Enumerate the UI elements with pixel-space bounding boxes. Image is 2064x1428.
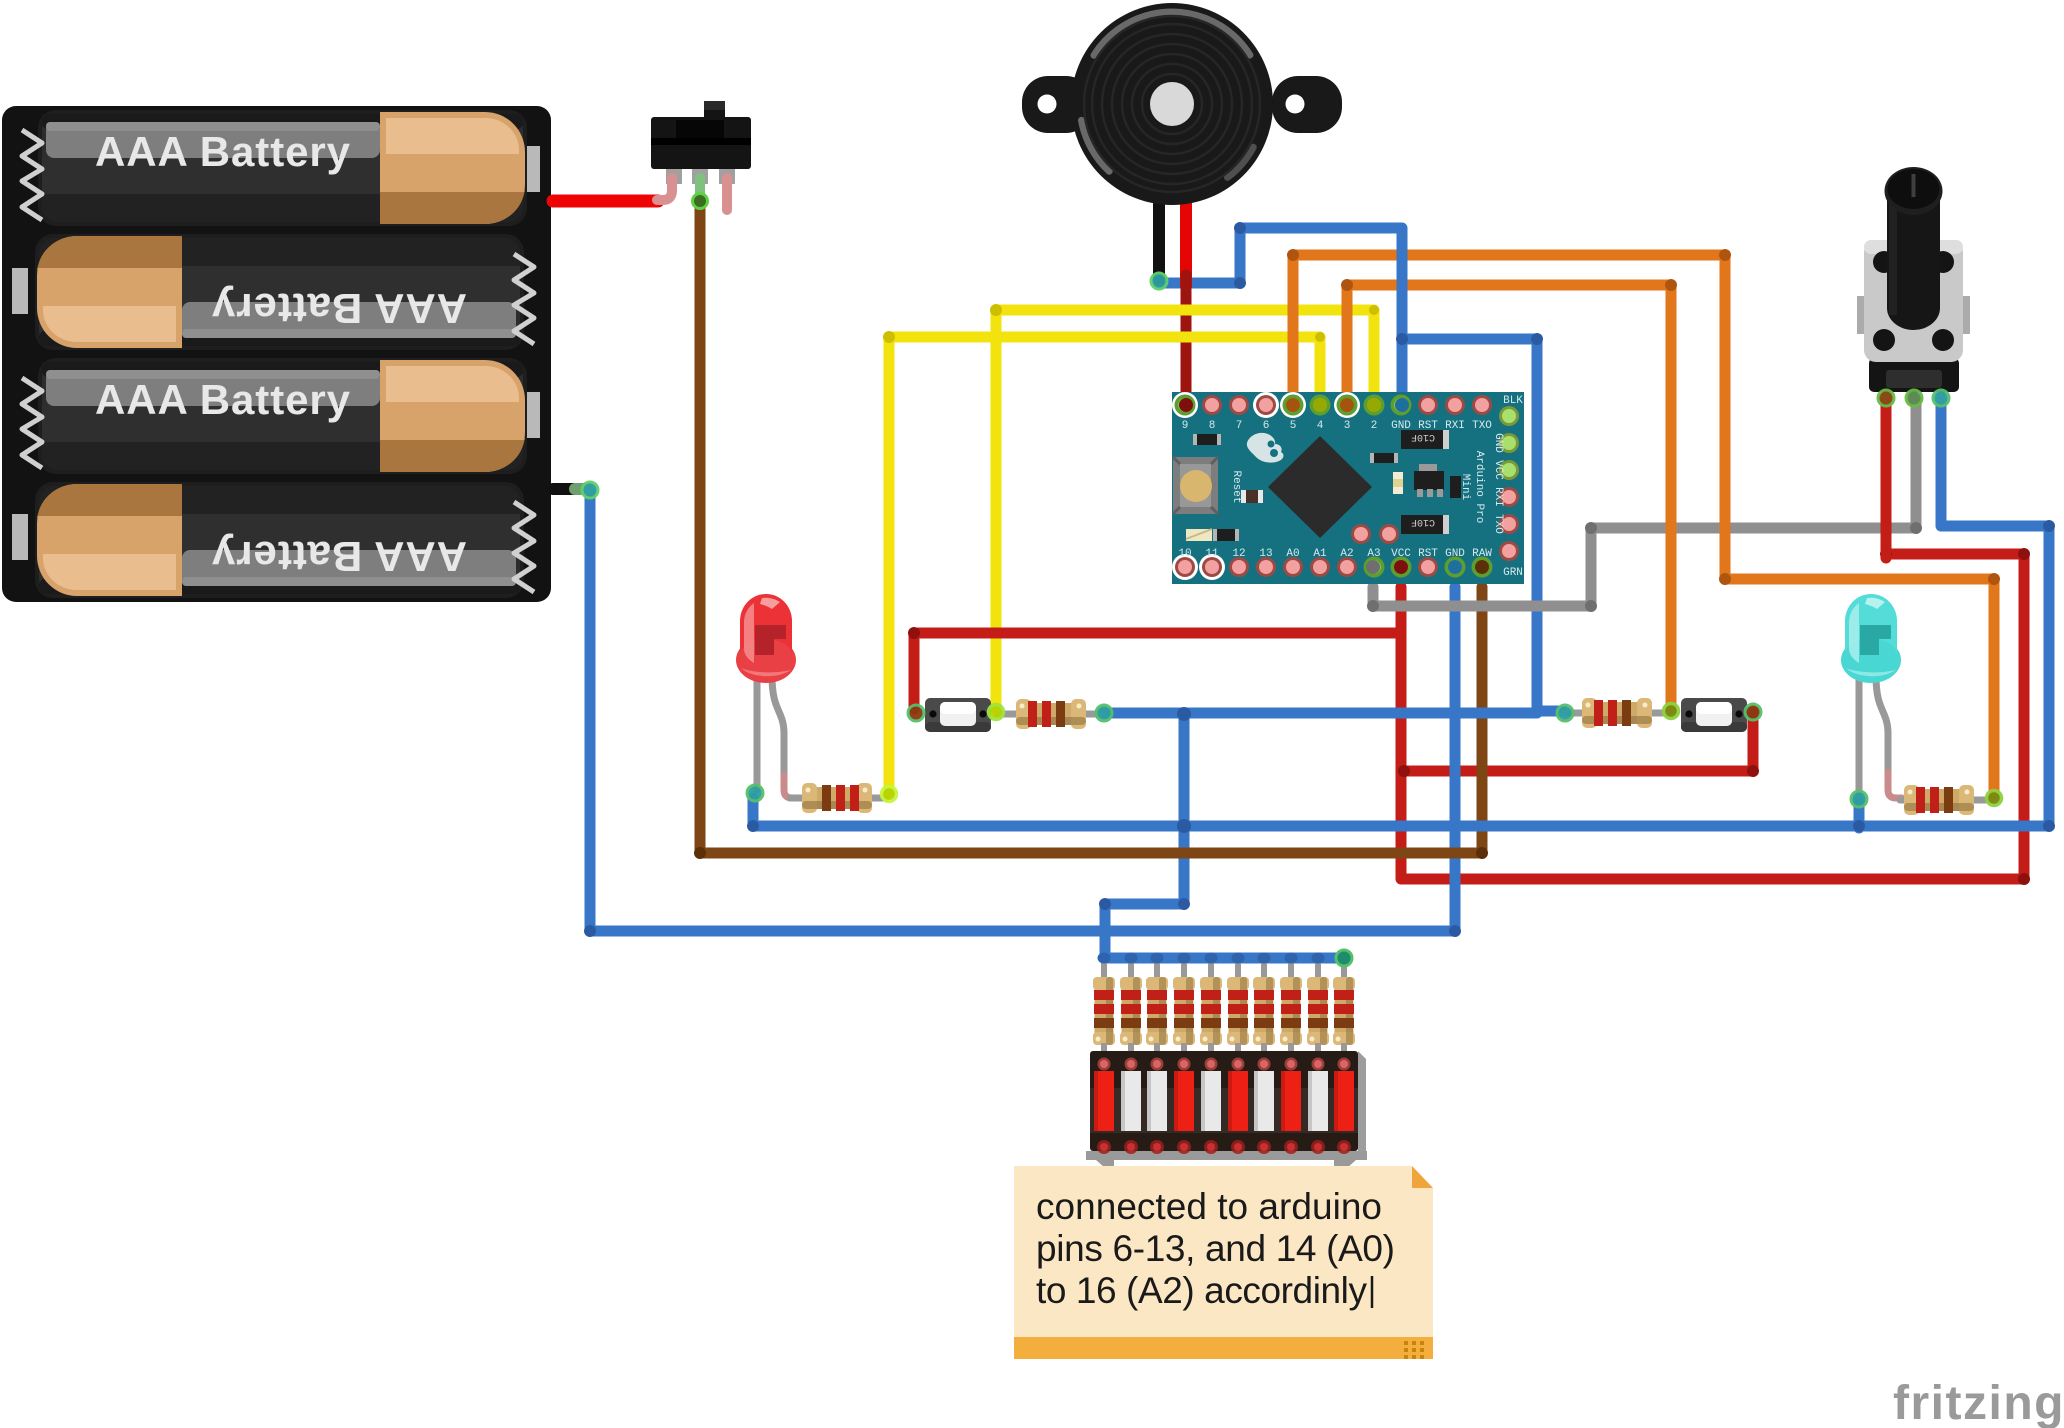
Arduino Pro Mini U1 (1172, 392, 1524, 584)
potentiometer RV1 (1857, 167, 1970, 404)
battery AAA cell 3 (38, 358, 527, 474)
junction dots on blue bus (1098, 950, 1353, 966)
svg-text:11: 11 (1205, 548, 1219, 560)
junction: S3 right pin (red wire) (1745, 704, 1761, 720)
junction: R4 right to orange wire (1987, 791, 2002, 806)
svg-text:GND: GND (1445, 548, 1465, 560)
resistor R10 (bar graph segment 6) (1227, 977, 1249, 1045)
svg-text:VCC: VCC (1492, 460, 1504, 480)
resistor R1 (LED D1 series) (802, 783, 872, 813)
U1 top pin row (1172, 392, 1492, 418)
U1 C10F capacitor (top) (1401, 430, 1449, 449)
svg-text:TXO: TXO (1472, 420, 1492, 432)
buzzer mounting ears (1022, 76, 1092, 133)
svg-text:2: 2 (1371, 420, 1378, 432)
svg-text:Reset: Reset (1230, 470, 1242, 503)
svg-text:13: 13 (1259, 548, 1272, 560)
resistor R3 lead wires (1564, 710, 1586, 717)
svg-text:AAA Battery: AAA Battery (211, 533, 467, 580)
U1 extra pads (1351, 524, 1371, 544)
resistor R12 (bar graph segment 8) (1280, 977, 1302, 1045)
LED D1 (red) (736, 594, 796, 798)
wire: red VCC main (VCC pin to potentiometer left pin) (1401, 554, 2024, 879)
resistor R4 lead wires (1900, 797, 1922, 804)
junction: LED D1 cathode (747, 785, 763, 801)
U1 reset button (1173, 457, 1218, 514)
resistor R2 (button S2 pulldown) (1016, 699, 1086, 729)
battery AAA cell 2 (35, 234, 524, 350)
buzzer black lead (1153, 170, 1165, 279)
battery AAA cell 1 (38, 110, 527, 226)
resistor R13 (bar graph segment 9) (1307, 977, 1329, 1045)
wire: brown switch middle pin to Arduino RAW pin (700, 203, 1482, 853)
LED D2 (cyan) (1841, 594, 1902, 798)
switch pin 3 stub (722, 178, 732, 210)
svg-text:AAA Battery: AAA Battery (95, 128, 351, 175)
resistor R9 (bar graph segment 5) (1200, 977, 1222, 1045)
svg-text:GND: GND (1492, 433, 1504, 453)
U1 right pin column (1499, 406, 1519, 561)
wire: blue buzzer-GND net (buzzer black lead to GND top pin) (1159, 228, 1402, 401)
piezo buzzer LS1 (1022, 0, 1342, 286)
slide switch S1 (651, 101, 751, 184)
switch pin 2 stub (to brown wire) (695, 178, 705, 196)
wire: red stub to potentiometer left pin (1881, 401, 1892, 558)
U1 ATmega chip (diamond) (1268, 436, 1372, 538)
svg-text:5: 5 (1290, 420, 1297, 432)
svg-text:12: 12 (1232, 548, 1245, 560)
wire: black battery negative stub (553, 483, 583, 495)
svg-text:9: 9 (1182, 420, 1189, 432)
junction rings: potentiometer pins (1878, 390, 1894, 406)
svg-text:BLK: BLK (1503, 395, 1523, 407)
svg-text:connected to arduino: connected to arduino (1036, 1186, 1382, 1227)
buzzer red lead (1180, 170, 1192, 286)
resistor R14 (bar graph segment 10) (1333, 977, 1355, 1045)
svg-text:RAW: RAW (1472, 548, 1492, 560)
wire: gray Arduino A3 to potentiometer middle pin (1373, 401, 1916, 606)
svg-text:6: 6 (1263, 420, 1270, 432)
push button S3 (1681, 698, 1747, 732)
push button S2 (925, 698, 991, 732)
wire: blue bar-graph feeder (vertical x1184 and bus) (1105, 716, 1184, 956)
svg-text:10: 10 (1178, 548, 1191, 560)
wire: yellow pin2 net (Arduino pin 2 to button S2 junction) (996, 310, 1374, 709)
wire: blue battery negative to Arduino GND bottom pin (590, 492, 1455, 931)
junction: S3 left pin / orange wire (1664, 704, 1679, 719)
svg-text:fritzing: fritzing (1893, 1377, 2064, 1428)
resistor R1 lead wires (790, 795, 806, 802)
svg-text:Arduino Pro: Arduino Pro (1473, 451, 1485, 524)
wire: yellow pin4 net (Arduino pin 4 to resistor R1 junction) (889, 337, 1320, 792)
U1 small SMD parts (1186, 434, 1461, 541)
svg-text:AAA Battery: AAA Battery (211, 285, 467, 332)
battery holder BT1 (4xAAA) (2, 106, 551, 602)
resistor R7 (bar graph segment 3) (1146, 977, 1168, 1045)
battery AAA cell 4 (35, 482, 524, 598)
wire: buzzer red lead to Arduino pin 9 (dark red) (1181, 280, 1192, 401)
svg-text:C10F: C10F (1411, 516, 1435, 527)
svg-text:A0: A0 (1286, 548, 1299, 560)
junction: R3 left end cap (1557, 705, 1573, 721)
junction: S2 right pin / yellow wire (989, 705, 1004, 720)
junction: LED D2 cathode (1851, 791, 1867, 807)
resistor R4 (LED D2 series) (1904, 785, 1974, 815)
resistor R11 (bar graph segment 7) (1253, 977, 1275, 1045)
resistor R5 (bar graph segment 1) (1093, 977, 1115, 1045)
U1 C10F capacitor (bottom) (1401, 515, 1449, 534)
U1 bottom pin row (1172, 554, 1493, 580)
svg-text:C10F: C10F (1411, 431, 1435, 442)
junction: R2 right end cap (1096, 705, 1112, 721)
wire: blue bus over vertical resistors (1105, 953, 1344, 964)
svg-text:A3: A3 (1367, 548, 1380, 560)
resistor R3 (button S3 pulldown) (1582, 698, 1652, 728)
wire: orange Arduino pin5 to resistor R4 right junction (1293, 255, 1994, 796)
wire: blue GND segment to resistor R3 (vertical right of Arduino) (1537, 341, 1562, 711)
wire: red battery positive to switch pin 1 (553, 195, 658, 208)
svg-text:A2: A2 (1340, 548, 1353, 560)
svg-text:7: 7 (1236, 420, 1243, 432)
U1 pin labels (1178, 395, 1523, 579)
resistor R8 (bar graph segment 4) (1173, 977, 1195, 1045)
svg-text:TXO: TXO (1492, 514, 1504, 534)
wire: red branch VCC to button S2 left pin (914, 633, 1401, 709)
svg-text:pins 6-13, and 14 (A0): pins 6-13, and 14 (A0) (1036, 1228, 1395, 1269)
junction: S2 left pin (red wire) (908, 705, 924, 721)
wire: orange Arduino pin3 to button S3 left junction (1347, 285, 1671, 709)
junction: buzzer black lead to blue wire (1151, 273, 1167, 289)
buzzer body (1071, 3, 1273, 205)
sticky note annotation (1014, 1166, 1433, 1359)
wire: red branch VCC to button S3 right pin (1404, 712, 1753, 771)
bar graph resistor leads (top) (1104, 960, 1344, 980)
wire: blue GND rail (LED cathodes, bar graph, potentiometer right pin) (753, 401, 2049, 826)
svg-text:4: 4 (1317, 420, 1324, 432)
svg-text:RST: RST (1418, 548, 1438, 560)
svg-text:RXI: RXI (1492, 487, 1504, 507)
svg-text:8: 8 (1209, 420, 1216, 432)
bar graph resistor leads (bottom) (1104, 1043, 1344, 1060)
svg-text:GRN: GRN (1503, 567, 1523, 579)
svg-text:VCC: VCC (1391, 548, 1411, 560)
battery springs (22, 130, 534, 592)
junction: R1 right to yellow pin4 wire (882, 787, 897, 802)
svg-text:AAA Battery: AAA Battery (95, 376, 351, 423)
svg-text:3: 3 (1344, 420, 1351, 432)
svg-text:A1: A1 (1313, 548, 1327, 560)
resistor R6 (bar graph segment 2) (1120, 977, 1142, 1045)
svg-text:to 16 (A2) accordinly: to 16 (A2) accordinly (1036, 1270, 1368, 1311)
wire end caps at U1 pins (1179, 398, 1489, 574)
resistor R2 lead wires (998, 711, 1020, 718)
LED bar graph DS1 (1086, 1051, 1367, 1168)
U1 flame logo (1247, 433, 1284, 463)
